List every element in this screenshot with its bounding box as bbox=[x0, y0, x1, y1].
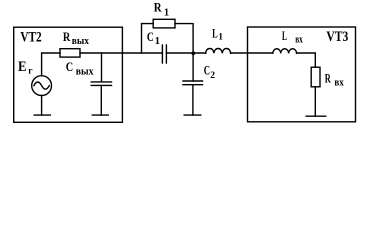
svg-text:C: C bbox=[147, 30, 154, 44]
svg-text:C: C bbox=[204, 64, 210, 78]
svg-text:1: 1 bbox=[218, 33, 223, 43]
svg-text:C: C bbox=[66, 60, 73, 74]
svg-text:1: 1 bbox=[155, 36, 160, 47]
svg-text:2: 2 bbox=[210, 71, 215, 81]
svg-text:вых: вых bbox=[72, 36, 90, 47]
svg-text:вх: вх bbox=[334, 78, 344, 89]
svg-text:R: R bbox=[154, 1, 163, 15]
svg-text:вых: вых bbox=[76, 66, 94, 77]
svg-text:вх: вх bbox=[295, 34, 303, 45]
svg-text:R: R bbox=[325, 70, 331, 85]
svg-text:г: г bbox=[28, 66, 33, 76]
svg-text:E: E bbox=[18, 59, 27, 75]
svg-text:L: L bbox=[212, 25, 218, 40]
svg-text:VT3: VT3 bbox=[326, 29, 348, 45]
svg-text:VT2: VT2 bbox=[20, 30, 41, 46]
svg-text:1: 1 bbox=[164, 7, 169, 18]
svg-text:R: R bbox=[63, 30, 71, 44]
svg-text:L: L bbox=[282, 28, 287, 43]
